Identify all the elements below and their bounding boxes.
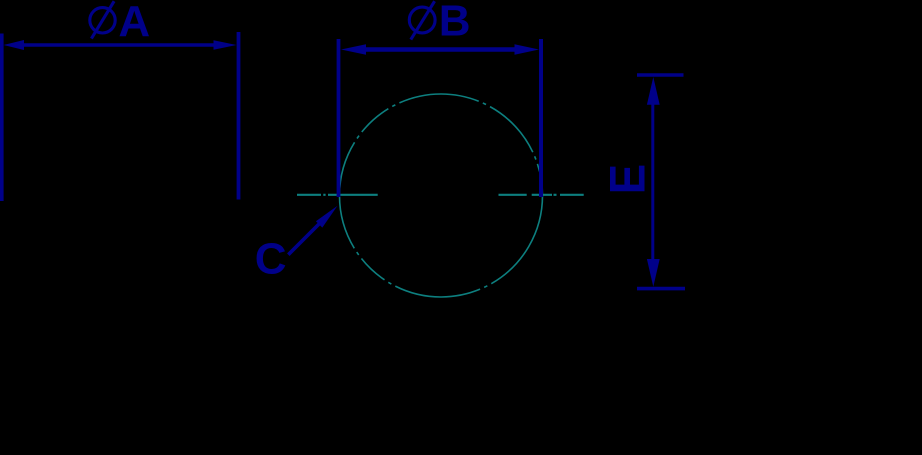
dimension E arrow up [647, 77, 660, 105]
dimension B arrow left [341, 44, 366, 54]
knob circle (phantom line) [340, 94, 543, 297]
dimension E bottom tick [637, 287, 685, 291]
svg-text:C: C [255, 235, 287, 284]
dimension E line [651, 95, 654, 262]
leader C arrowhead [316, 206, 338, 228]
dimension A line [20, 43, 220, 46]
dimension B extension line left [337, 39, 341, 197]
diameter symbol of A [90, 1, 115, 38]
dimension A arrow left [4, 40, 25, 50]
horizontal centerline right part [499, 194, 584, 196]
dimension B arrow right [515, 44, 540, 54]
leader line C [288, 219, 324, 255]
svg-text:E: E [601, 164, 656, 194]
dimension A extension line right [237, 32, 241, 200]
dimension E arrow down [647, 259, 660, 287]
diameter symbol of B [409, 1, 435, 39]
dimension A extension line left [0, 34, 4, 202]
dimension B line [356, 47, 520, 52]
dimension E top tick [637, 73, 684, 77]
dimension A arrow right [214, 40, 237, 50]
svg-text:B: B [439, 0, 471, 46]
horizontal centerline left part [297, 194, 382, 196]
dimension B extension line right [539, 39, 543, 197]
svg-text:A: A [118, 0, 150, 46]
